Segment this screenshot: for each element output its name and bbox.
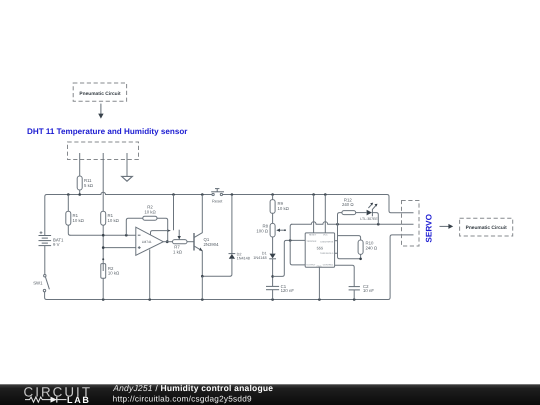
svg-text:LM741: LM741 bbox=[142, 240, 152, 244]
LED LED1 LTL-307EE bbox=[360, 203, 378, 221]
battery BAT1 bbox=[39, 231, 65, 247]
wire battery to switch bbox=[44, 246, 46, 275]
wire op-amp V+ stub with arrow bbox=[151, 229, 171, 235]
resistor R12 bbox=[342, 197, 367, 214]
svg-text:http://circuitlab.com/csgdag2y: http://circuitlab.com/csgdag2y5sdd9 bbox=[113, 394, 252, 403]
svg-text:VCC: VCC bbox=[323, 234, 328, 237]
node rail junctions bbox=[67, 193, 327, 196]
arrow servo to pneumatic bbox=[440, 224, 454, 229]
svg-text:DISCHARGE: DISCHARGE bbox=[320, 240, 334, 243]
svg-text:Pneumatic Circuit: Pneumatic Circuit bbox=[466, 225, 508, 231]
wire (DHT pin 1 to R11) bbox=[79, 153, 81, 176]
transistor Q1 2N3904 bbox=[194, 195, 219, 277]
svg-text:120 nF: 120 nF bbox=[281, 288, 295, 293]
wire (DHT pin 3 to ground) bbox=[126, 153, 128, 176]
svg-text:9 V: 9 V bbox=[53, 242, 60, 247]
pneumatic circuit box (top) bbox=[73, 83, 126, 101]
capacitor C2 bbox=[349, 284, 375, 299]
wire output to R7 bbox=[163, 241, 172, 243]
resistor R9 bbox=[270, 195, 290, 224]
pushbutton Reset bbox=[211, 189, 224, 204]
svg-text:240 Ω: 240 Ω bbox=[342, 202, 354, 207]
wire (DHT pin 2 down to rail) bbox=[102, 153, 104, 195]
node discharge column / servo net junction bbox=[336, 223, 339, 226]
wire inverting input bbox=[70, 234, 136, 236]
svg-text:RESET: RESET bbox=[309, 234, 317, 237]
diode D1 bbox=[253, 252, 276, 287]
servo connector dashed box bbox=[402, 201, 420, 247]
svg-text:1 kΩ: 1 kΩ bbox=[173, 249, 183, 254]
arrow from pneumatic box to sensor bbox=[98, 104, 103, 119]
node LED cathode / servo net junction bbox=[377, 223, 380, 226]
DHT11 sensor dashed box bbox=[68, 142, 139, 160]
svg-text:SW1: SW1 bbox=[33, 281, 43, 286]
svg-text:100 Ω: 100 Ω bbox=[256, 229, 268, 234]
svg-text:10 kΩ: 10 kΩ bbox=[73, 218, 85, 223]
diode D2 bbox=[229, 195, 250, 277]
wire top rail left bbox=[45, 192, 212, 235]
resistor R2 (lower) bbox=[101, 258, 120, 299]
svg-text:CONTROL: CONTROL bbox=[323, 263, 334, 266]
wire 555 VCC pin to rail bbox=[324, 195, 326, 233]
IC U3 555 bbox=[305, 233, 334, 268]
svg-text:LTL-307EE: LTL-307EE bbox=[360, 217, 378, 221]
svg-text:Pneumatic Circuit: Pneumatic Circuit bbox=[79, 91, 121, 97]
logo waveform bbox=[25, 397, 51, 402]
wire output column bbox=[290, 224, 305, 265]
wire 555 DISCHARGE stub bbox=[335, 240, 338, 242]
svg-text:10 kΩ: 10 kΩ bbox=[108, 218, 120, 223]
svg-text:DHT 11 Temperature and Humidit: DHT 11 Temperature and Humidity sensor bbox=[27, 127, 188, 136]
node trigger branch junction bbox=[271, 275, 274, 278]
capacitor C1 bbox=[266, 284, 294, 300]
svg-text:240 Ω: 240 Ω bbox=[366, 245, 378, 250]
wire discharge column bbox=[338, 213, 342, 254]
resistor R1 (left) bbox=[66, 195, 85, 236]
svg-text:1N4148: 1N4148 bbox=[237, 257, 250, 261]
wire 555 GND to bottom rail bbox=[318, 267, 320, 299]
svg-text:THRESHOLD: THRESHOLD bbox=[320, 252, 334, 255]
svg-text:10 kΩ: 10 kΩ bbox=[144, 209, 156, 214]
svg-text:10 kΩ: 10 kΩ bbox=[108, 271, 120, 276]
svg-text:OUTPUT: OUTPUT bbox=[306, 263, 316, 266]
svg-text:Reset: Reset bbox=[212, 198, 223, 203]
op-amp U1 LM741 bbox=[136, 227, 164, 255]
wire from rail tap down bbox=[173, 195, 175, 231]
resistor R11 bbox=[77, 176, 94, 195]
wire noninverting input bbox=[103, 247, 136, 249]
svg-text:10 kΩ: 10 kΩ bbox=[278, 206, 290, 211]
svg-text:1N4148: 1N4148 bbox=[253, 256, 266, 260]
svg-text:SERVO: SERVO bbox=[425, 213, 434, 242]
resistor R1 (second) bbox=[101, 195, 120, 265]
pneumatic circuit box (right) bbox=[460, 218, 513, 236]
resistor R10 bbox=[338, 236, 378, 261]
ground bbox=[122, 176, 133, 181]
rheostat R8 bbox=[256, 223, 285, 253]
svg-text:LAB: LAB bbox=[67, 395, 91, 405]
node minus junctions bbox=[102, 234, 105, 237]
wire emitter column to bottom rail bbox=[201, 276, 203, 299]
switch SW1 bbox=[33, 275, 49, 292]
wire op-amp V- to bottom rail bbox=[149, 250, 151, 300]
wire trigger path bbox=[273, 240, 306, 276]
potentiometer R7 bbox=[173, 230, 194, 255]
wire 555 CONTROL to C2 bbox=[335, 265, 355, 286]
wire 555 RESET pin to rail bbox=[313, 195, 315, 233]
wire 555 THRESHOLD to R10 bottom bbox=[335, 253, 361, 259]
svg-text:555: 555 bbox=[317, 245, 324, 250]
resistor R2 (feedback) bbox=[126, 205, 167, 242]
wire 555 net to servo (with hops) bbox=[291, 222, 413, 224]
wire LED to servo net bbox=[372, 213, 378, 225]
node trigger/output column junction bbox=[289, 239, 292, 242]
svg-text:5 kΩ: 5 kΩ bbox=[84, 183, 94, 188]
node op-amp output bbox=[166, 240, 169, 243]
node noninverting tap bbox=[102, 246, 105, 249]
svg-text:AndyJ251 / Humidity control an: AndyJ251 / Humidity control analogue bbox=[112, 383, 273, 393]
svg-text:TRIGGER: TRIGGER bbox=[306, 240, 316, 243]
svg-text:2N3904: 2N3904 bbox=[204, 242, 220, 247]
node bottom rail junctions bbox=[102, 298, 356, 301]
svg-text:10 nF: 10 nF bbox=[363, 288, 374, 293]
wire top rail right bbox=[222, 195, 413, 213]
wire emitter to D2 bottom link bbox=[202, 275, 230, 277]
wire bottom rail (incl. switch lead and servo pin3 riser) bbox=[45, 235, 414, 300]
